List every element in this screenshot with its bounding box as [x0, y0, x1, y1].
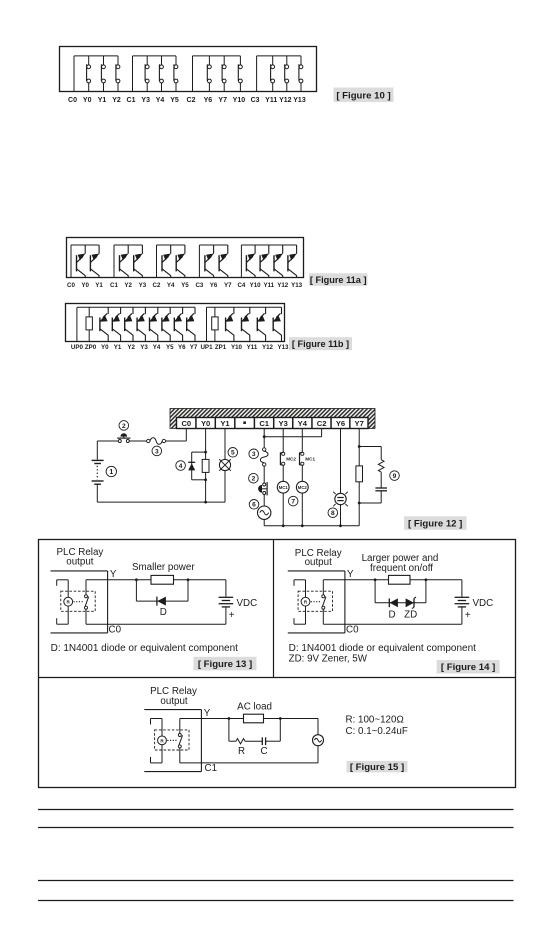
- svg-text:Y6: Y6: [210, 282, 218, 289]
- svg-text:Y4: Y4: [153, 344, 161, 351]
- output transistor: [176, 245, 185, 278]
- svg-text:Y7: Y7: [224, 282, 232, 289]
- svg-text:C0: C0: [68, 97, 77, 104]
- caption box Figure 12: [404, 516, 467, 530]
- svg-text:Y1: Y1: [95, 282, 103, 289]
- wire Y0 to load: [205, 428, 207, 502]
- wire C2 jumper to C1: [264, 428, 321, 436]
- wire Y to AC source (Fig 15): [201, 717, 318, 720]
- wire battery to pushbutton: [97, 440, 118, 442]
- fuse 3: [129, 438, 165, 445]
- label 7: [288, 496, 298, 506]
- Figure 11b transistor sinking-output block outline: [66, 304, 285, 342]
- svg-text:output: output: [305, 557, 333, 568]
- relay contact Y7: [222, 56, 226, 92]
- common bus wire: [157, 245, 185, 278]
- inductive load on Y0: [202, 459, 209, 472]
- caption box Figure 11b: [289, 337, 352, 350]
- wire Y to VDC (Fig 13): [108, 578, 226, 581]
- load box (Fig 13): [151, 575, 174, 584]
- output transistor: [149, 307, 158, 341]
- AC source (Fig 15): [313, 719, 324, 763]
- svg-text:8: 8: [331, 510, 335, 517]
- label Larger power and frequent on/off: [362, 553, 439, 574]
- svg-text:Y12: Y12: [279, 97, 292, 104]
- common bus C3: [257, 56, 301, 92]
- svg-text:C1: C1: [259, 419, 269, 428]
- svg-text:UP0: UP0: [71, 344, 84, 351]
- table frame around Figures 13-15: [39, 540, 516, 788]
- svg-text:Y10: Y10: [231, 344, 243, 351]
- label 5: [228, 448, 238, 458]
- output transistor: [161, 307, 170, 341]
- svg-text:[ Figure 12 ]: [ Figure 12 ]: [408, 519, 462, 530]
- svg-text:7: 7: [291, 498, 295, 505]
- unused terminal mark: [243, 421, 246, 424]
- svg-text:Y1: Y1: [114, 344, 122, 351]
- load box (Fig 15): [244, 714, 264, 723]
- output transistor: [120, 245, 129, 278]
- svg-text:ZD: ZD: [404, 610, 417, 621]
- svg-text:Y4: Y4: [167, 282, 175, 289]
- relay contact Y13: [299, 56, 303, 92]
- rule line 4: [38, 900, 514, 902]
- wire C0 (Fig 13): [108, 623, 226, 625]
- svg-text:Y2: Y2: [124, 282, 132, 289]
- label 9: [390, 471, 400, 481]
- relay symbol (Fig 15): [144, 710, 201, 772]
- output transistor: [225, 307, 234, 341]
- caption box Figure 13: [194, 657, 257, 671]
- svg-text:2: 2: [252, 476, 256, 483]
- svg-text:MC2: MC2: [298, 485, 308, 490]
- lamp load 5 on Y1: [219, 428, 231, 502]
- AC return wire: [264, 524, 359, 527]
- svg-text:[ Figure 10 ]: [ Figure 10 ]: [336, 90, 390, 101]
- svg-text:Y7: Y7: [218, 97, 227, 104]
- svg-text:MC2: MC2: [286, 456, 296, 461]
- output transistor: [99, 307, 108, 341]
- caption box Figure 10: [334, 88, 394, 103]
- relay symbol (Fig 14): [288, 571, 345, 633]
- suppressor diodes D and ZD (Fig 14): [375, 580, 426, 609]
- output transistor: [162, 245, 171, 278]
- wire Y7 with load: [358, 428, 361, 525]
- hatched mounting bar: [170, 409, 375, 429]
- svg-text:[ Figure 15 ]: [ Figure 15 ]: [350, 762, 404, 773]
- output transistor: [205, 245, 214, 278]
- svg-text:ZP0: ZP0: [85, 344, 97, 351]
- relay contact Y2: [116, 56, 120, 92]
- common bus wire UP: [77, 307, 195, 341]
- output transistor: [174, 307, 183, 341]
- common bus wire: [71, 245, 99, 278]
- svg-text:[ Figure 13 ]: [ Figure 13 ]: [198, 659, 252, 670]
- svg-text:Smaller power: Smaller power: [132, 562, 195, 573]
- svg-text:+: +: [465, 610, 471, 621]
- flywheel diode D (Fig 13): [136, 580, 188, 606]
- rule line 1: [38, 809, 514, 811]
- load box (Fig 14): [389, 575, 411, 584]
- svg-text:Y1: Y1: [220, 419, 230, 428]
- svg-text:D: 1N4001 diode or equivalent: D: 1N4001 diode or equivalent component: [51, 643, 239, 654]
- svg-text:UP1: UP1: [200, 344, 213, 351]
- common bus C2: [193, 56, 241, 92]
- output transistor: [260, 245, 269, 278]
- common bus wire: [241, 245, 296, 278]
- output transistor: [257, 307, 266, 341]
- caption box Figure 11a: [309, 273, 368, 286]
- junction dots on Y0 branch: [204, 451, 207, 504]
- svg-text:3: 3: [252, 451, 256, 458]
- label 2: [119, 421, 129, 431]
- svg-text:Y10: Y10: [250, 282, 262, 289]
- svg-text:Y13: Y13: [291, 282, 303, 289]
- caption box Figure 15: [347, 761, 408, 773]
- svg-text:Y3: Y3: [141, 97, 150, 104]
- RC snubber R and C (Fig 15): [229, 719, 280, 746]
- svg-text:3: 3: [155, 448, 159, 455]
- svg-text:C2: C2: [187, 97, 196, 104]
- label 3: [152, 446, 162, 456]
- output transistor: [219, 245, 228, 278]
- common bus C1: [133, 56, 177, 92]
- svg-text:C1: C1: [205, 763, 218, 774]
- output transistor: [288, 245, 297, 278]
- svg-text:Y13: Y13: [293, 97, 306, 104]
- wire C1 (Fig 15): [201, 762, 318, 764]
- svg-text:2: 2: [122, 423, 126, 430]
- svg-text:D: 1N4001 diode or equivalent: D: 1N4001 diode or equivalent component: [289, 643, 477, 654]
- svg-text:Y4: Y4: [156, 97, 165, 104]
- svg-text:output: output: [66, 557, 94, 568]
- svg-text:C0: C0: [181, 419, 191, 428]
- output transistor: [137, 307, 146, 341]
- output transistor: [246, 245, 255, 278]
- relay contact Y6: [207, 56, 211, 92]
- common bus C0: [74, 56, 118, 92]
- wire Y to VDC (Fig 14): [345, 578, 462, 581]
- svg-text:C0: C0: [109, 624, 122, 635]
- svg-text:Y0: Y0: [81, 282, 89, 289]
- svg-text:Y12: Y12: [262, 344, 274, 351]
- svg-text:[ Figure 14 ]: [ Figure 14 ]: [441, 662, 495, 673]
- svg-text:Y0: Y0: [83, 97, 92, 104]
- output transistor: [273, 307, 282, 341]
- svg-text:C4: C4: [237, 282, 245, 289]
- common bus wire UP: [207, 307, 282, 341]
- svg-text:output: output: [160, 696, 188, 707]
- fuse 3 (AC side): [260, 448, 268, 466]
- svg-text:Y1: Y1: [98, 97, 107, 104]
- labels R C (Fig 15): [238, 746, 268, 757]
- svg-text:Y13: Y13: [277, 344, 289, 351]
- label 3 (AC side): [249, 449, 259, 459]
- svg-text:1: 1: [109, 469, 113, 476]
- relay contact Y4: [159, 56, 163, 92]
- svg-text:6: 6: [252, 502, 256, 509]
- svg-text:MC1: MC1: [305, 456, 315, 461]
- svg-text:[ Figure 11a ]: [ Figure 11a ]: [310, 275, 367, 285]
- svg-text:D: D: [160, 607, 167, 618]
- label PLC Relay output (Fig 15): [150, 686, 197, 707]
- svg-text:Y: Y: [110, 569, 117, 580]
- svg-text:Y3: Y3: [139, 282, 147, 289]
- svg-text:Y0: Y0: [201, 419, 210, 428]
- pushbutton 2 (AC side): [258, 466, 267, 506]
- svg-text:Y3: Y3: [279, 419, 288, 428]
- svg-text:Y2: Y2: [127, 344, 135, 351]
- wire C1 down with junction: [263, 428, 266, 447]
- svg-text:Y6: Y6: [204, 97, 213, 104]
- relay contact Y0: [87, 56, 91, 92]
- label 2 (AC side): [249, 473, 259, 483]
- svg-text:Y12: Y12: [277, 282, 289, 289]
- label 6: [249, 500, 259, 510]
- relay contact Y5: [174, 56, 178, 92]
- output transistor: [77, 245, 86, 278]
- note diode type (Fig 14): [289, 643, 477, 665]
- svg-text:Y5: Y5: [170, 97, 179, 104]
- svg-text:VDC: VDC: [473, 598, 494, 609]
- interlock contact MC2 on Y3: [280, 428, 296, 465]
- svg-text:Y: Y: [204, 708, 211, 719]
- relay contact Y11: [271, 56, 275, 92]
- RC snubber 9: [359, 447, 387, 504]
- svg-text:C0: C0: [67, 282, 75, 289]
- wire fuse to terminal C0: [166, 428, 187, 441]
- wire C0 (Fig 14): [345, 623, 462, 625]
- emergency stop pushbutton 2: [117, 433, 130, 442]
- Figure 11a transistor sourcing-output block outline: [67, 238, 304, 278]
- rule line 2: [38, 827, 514, 829]
- svg-text:Y2: Y2: [112, 97, 121, 104]
- svg-text:C2: C2: [317, 419, 327, 428]
- svg-text:Y5: Y5: [181, 282, 189, 289]
- label PLC Relay output (Fig 14): [295, 548, 342, 568]
- relay contact Y1: [101, 56, 105, 92]
- svg-text:[ Figure 11b ]: [ Figure 11b ]: [292, 339, 349, 349]
- svg-text:9: 9: [393, 473, 397, 480]
- relay symbol (Fig 13): [51, 571, 108, 633]
- svg-text:Y4: Y4: [298, 419, 308, 428]
- svg-text:C1: C1: [110, 282, 118, 289]
- svg-text:frequent on/off: frequent on/off: [370, 563, 433, 574]
- label PLC Relay output (Fig 13): [56, 547, 103, 568]
- component values (Fig 15): [346, 715, 408, 738]
- battery 1 (DC supply): [92, 441, 104, 502]
- svg-text:Y5: Y5: [166, 344, 174, 351]
- output transistor: [274, 245, 283, 278]
- svg-text:Y11: Y11: [265, 97, 277, 104]
- common bus wire: [114, 245, 142, 278]
- rule line 3: [38, 880, 514, 882]
- svg-text:VDC: VDC: [237, 598, 258, 609]
- battery VDC (Fig 13): [219, 580, 234, 624]
- label 1: [106, 466, 116, 476]
- pull-up resistor ZP: [86, 307, 92, 341]
- svg-text:Y: Y: [347, 569, 354, 580]
- label 4: [176, 461, 186, 471]
- relay contact Y12: [285, 56, 289, 92]
- Figure 10 relay-output contact block outline: [60, 47, 317, 92]
- output transistor: [90, 245, 99, 278]
- svg-text:Y11: Y11: [247, 344, 258, 351]
- DC return wire: [97, 501, 225, 503]
- svg-text:R: R: [238, 746, 245, 757]
- neon lamp 8 on Y6: [333, 428, 348, 525]
- svg-text:Larger power and: Larger power and: [362, 553, 439, 564]
- relay contact Y10: [238, 56, 242, 92]
- svg-text:ZD: 9V Zener, 5W: ZD: 9V Zener, 5W: [289, 653, 368, 664]
- svg-text:5: 5: [231, 450, 235, 457]
- svg-text:+: +: [229, 610, 235, 621]
- svg-text:Y0: Y0: [101, 344, 109, 351]
- svg-text:Y10: Y10: [233, 97, 246, 104]
- svg-text:Y7: Y7: [190, 344, 198, 351]
- caption box Figure 14: [437, 660, 500, 674]
- svg-text:4: 4: [179, 463, 183, 470]
- svg-text:C2: C2: [153, 282, 161, 289]
- svg-text:Y6: Y6: [336, 419, 345, 428]
- label VDC (Fig 14): [465, 598, 493, 621]
- output transistor: [112, 307, 121, 341]
- AC source 6: [258, 506, 271, 526]
- terminal strip row: [177, 418, 369, 429]
- resistive load on Y7: [356, 466, 363, 482]
- svg-text:C0: C0: [346, 624, 359, 635]
- output transistor: [241, 307, 250, 341]
- interlock contact MC1 on Y4: [300, 428, 316, 465]
- battery VDC (Fig 14): [455, 580, 470, 624]
- svg-text:Y6: Y6: [178, 344, 186, 351]
- svg-text:C: 0.1~0.24uF: C: 0.1~0.24uF: [346, 726, 408, 737]
- svg-text:R: 100~120Ω: R: 100~120Ω: [346, 715, 404, 726]
- contactor coil MC2: [296, 465, 308, 525]
- common bus wire: [199, 245, 227, 278]
- svg-text:MC1: MC1: [279, 485, 289, 490]
- labels D ZD (Fig 14): [388, 610, 417, 621]
- contactor coil MC1: [277, 465, 289, 525]
- svg-text:Y3: Y3: [140, 344, 148, 351]
- relay contact Y3: [145, 56, 149, 92]
- flywheel diode 4: [188, 452, 205, 480]
- svg-text:AC load: AC load: [237, 702, 272, 713]
- svg-text:ZP1: ZP1: [215, 344, 227, 351]
- output transistor: [124, 307, 133, 341]
- svg-text:C3: C3: [251, 97, 260, 104]
- svg-text:C1: C1: [127, 97, 136, 104]
- label VDC (Fig 13): [229, 598, 257, 621]
- svg-text:D: D: [388, 610, 395, 621]
- label 8: [328, 508, 338, 518]
- svg-text:C: C: [260, 746, 267, 757]
- output transistor: [186, 307, 195, 341]
- svg-text:Y7: Y7: [355, 419, 364, 428]
- svg-text:Y11: Y11: [263, 282, 274, 289]
- pull-up resistor ZP: [212, 307, 218, 341]
- output transistor: [134, 245, 143, 278]
- svg-text:C3: C3: [195, 282, 203, 289]
